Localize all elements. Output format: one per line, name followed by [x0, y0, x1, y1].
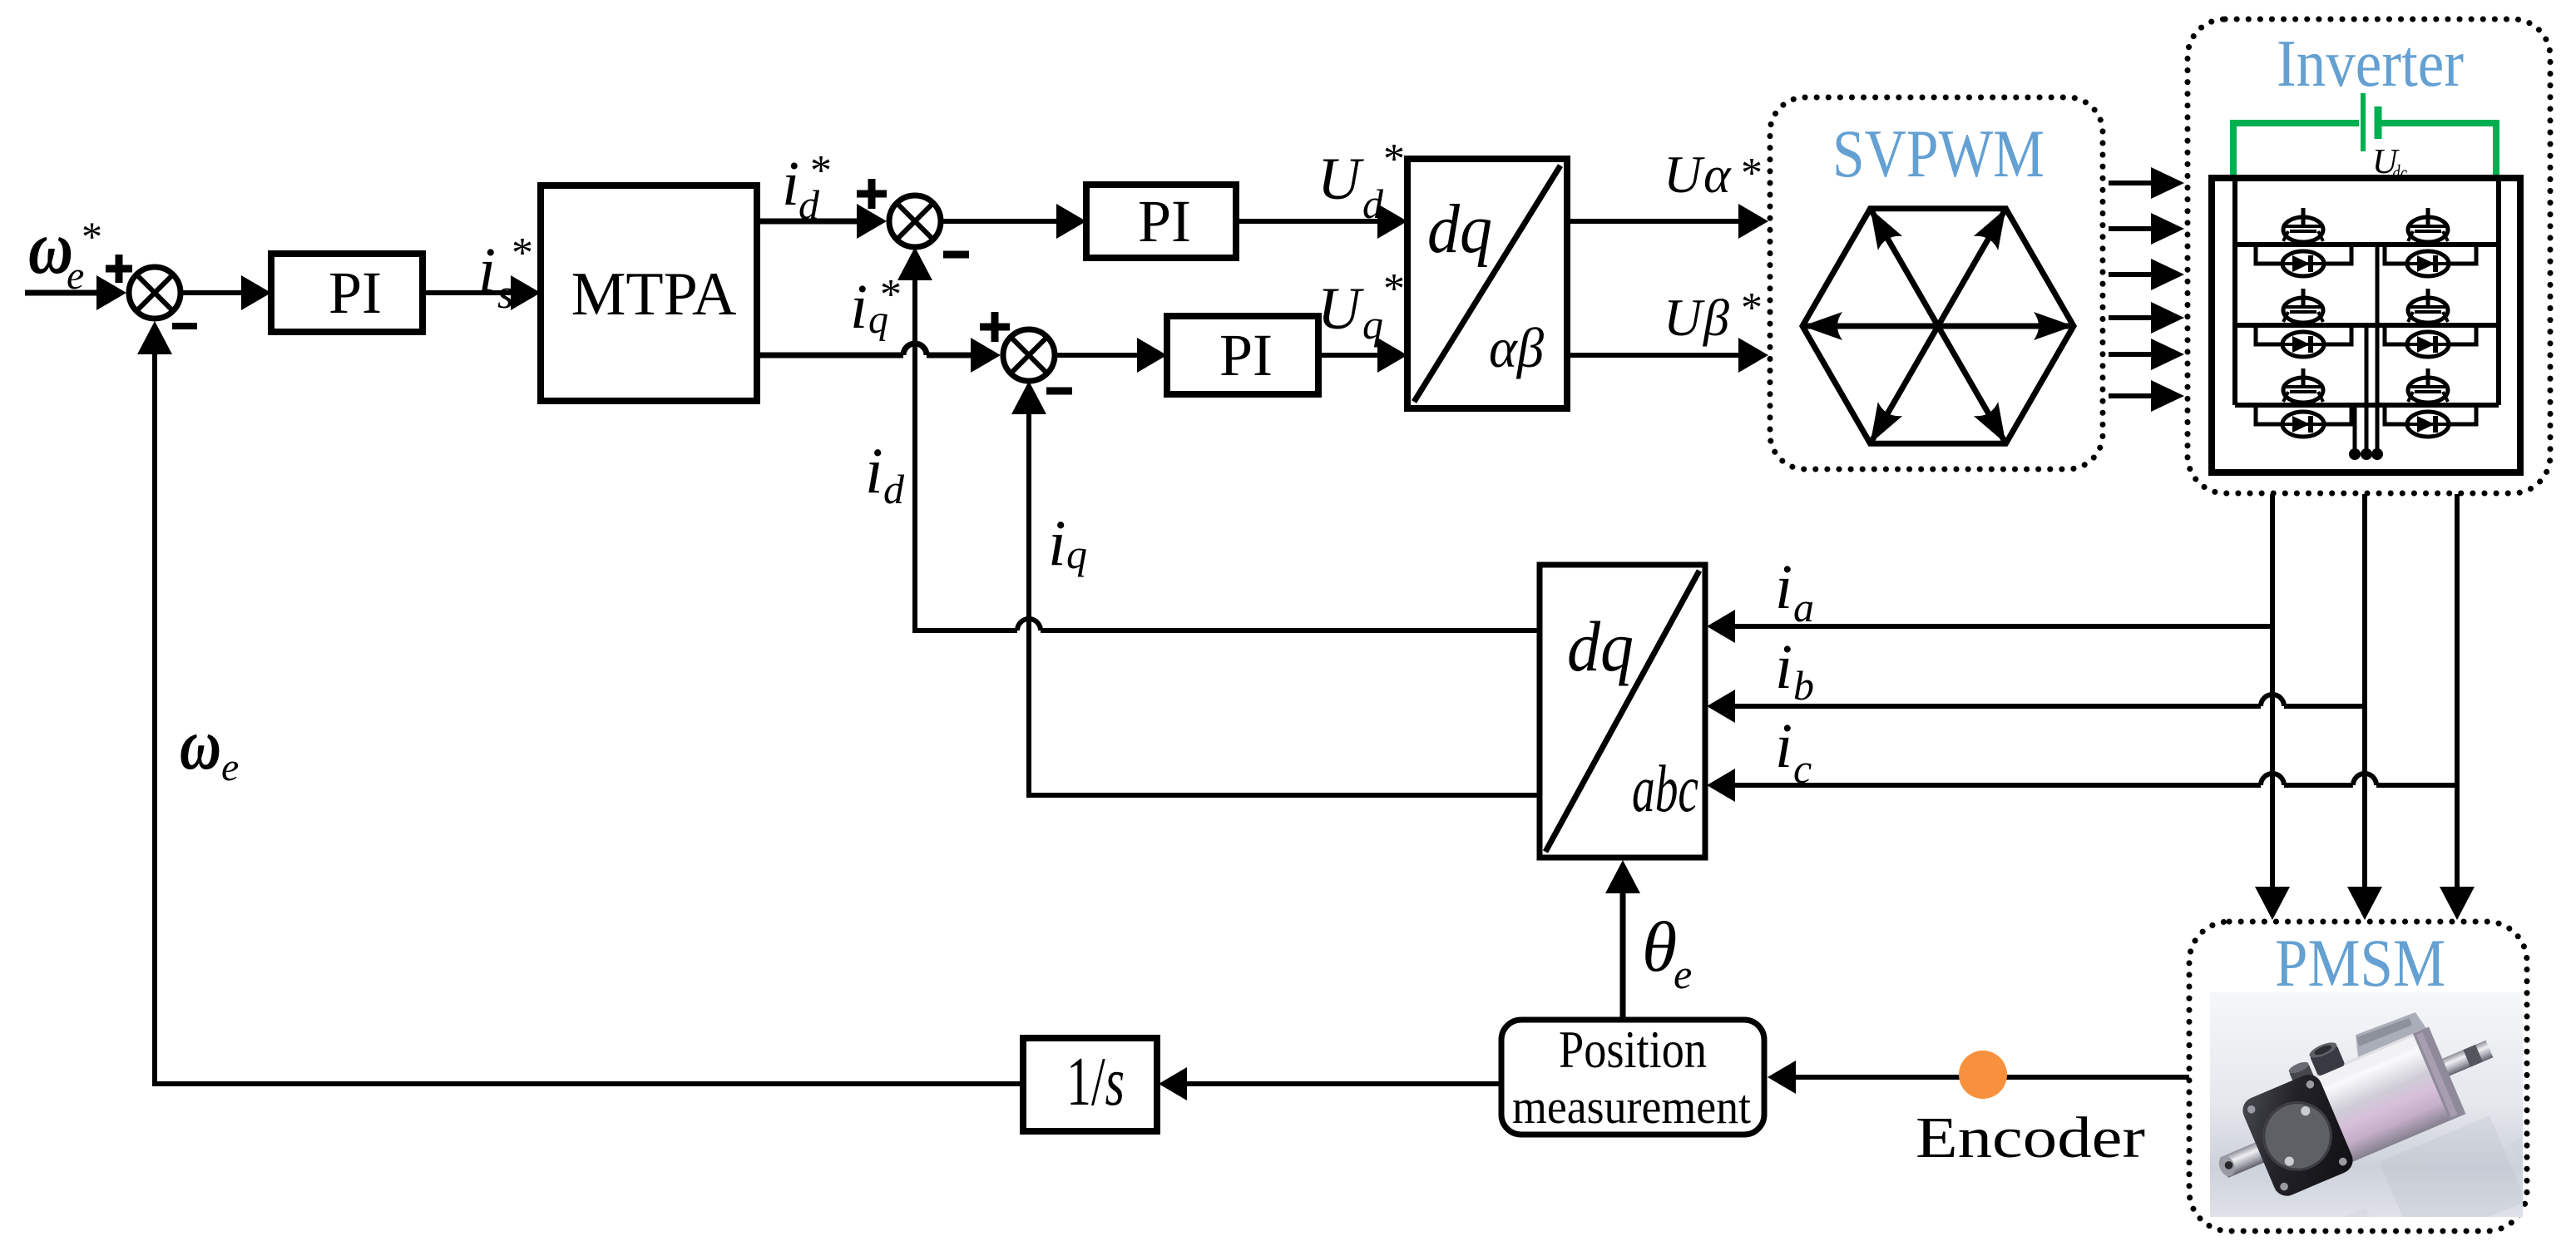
node omega_e feedback label	[180, 705, 239, 789]
encoder dot	[1959, 1051, 2007, 1099]
transistor Q4 (phase B mid)	[2408, 289, 2448, 323]
node U_beta* label	[1664, 284, 1763, 347]
wire J2 to PI2	[941, 204, 1086, 239]
svg-text:ω: ω	[180, 705, 221, 785]
diode D6 (phase B low)	[2385, 408, 2476, 437]
svg-text:U: U	[1318, 275, 1364, 342]
svg-text:dq: dq	[1427, 190, 1492, 268]
block MTPA	[541, 185, 757, 401]
diode D2 (phase B high)	[2385, 247, 2476, 276]
node U_d* label	[1318, 136, 1405, 227]
svg-text:i: i	[850, 272, 868, 342]
phase tap wires and dots	[2349, 245, 2383, 460]
wire encoder line PMSM to Position	[1768, 1061, 2189, 1094]
wire theta_e Position to dq/abc	[1605, 860, 1640, 1020]
node i_q feedback label	[1048, 507, 1087, 579]
transistor Q1 (phase A high)	[2283, 208, 2323, 242]
svg-text:Encoder: Encoder	[1916, 1106, 2145, 1170]
svg-text:d: d	[883, 466, 905, 512]
svg-text:a: a	[1793, 584, 1814, 630]
svg-text:q: q	[1066, 531, 1087, 577]
svg-text:i: i	[1775, 632, 1792, 702]
node i_q* label	[850, 271, 902, 342]
transistor Q5 (phase A low)	[2283, 368, 2323, 403]
wire ic from phase C to dq/abc with two hops	[1707, 769, 2457, 802]
node i_d* label	[782, 147, 832, 228]
svg-text:U: U	[1664, 288, 1705, 347]
svg-text:*: *	[82, 213, 102, 260]
svg-text:α: α	[1703, 147, 1732, 204]
svg-text:e: e	[1674, 951, 1692, 997]
svg-text:i: i	[782, 149, 799, 219]
svg-text:*: *	[512, 230, 533, 277]
block PMSM dotted container	[2189, 922, 2527, 1231]
svg-text:*: *	[1741, 284, 1763, 332]
svg-text:dc: dc	[2392, 161, 2407, 185]
svg-text:i: i	[478, 235, 496, 305]
block Inverter dotted container	[2188, 19, 2550, 493]
wire PI1 to MTPA with is* label	[423, 275, 541, 310]
svg-text:U: U	[1664, 145, 1705, 204]
svg-text:dq: dq	[1567, 606, 1634, 686]
svg-text:s: s	[497, 270, 513, 317]
svg-text:i: i	[1775, 711, 1792, 781]
wire ib from phase B to dq/abc with hop	[1707, 690, 2365, 723]
transistor Q6 (phase B low)	[2408, 368, 2448, 403]
diode D3 (phase A mid)	[2256, 328, 2351, 357]
node omega_e* input label	[28, 205, 102, 298]
summing junction J2	[857, 179, 969, 255]
svg-text:*: *	[1383, 136, 1405, 183]
node i_s* label	[478, 230, 533, 317]
svg-text:i: i	[1048, 507, 1066, 579]
svg-text:U: U	[1318, 146, 1364, 212]
transistor Q2 (phase B high)	[2408, 208, 2448, 242]
block dq/abc transform	[1540, 565, 1705, 858]
block PI2 (d-axis PI)	[1086, 185, 1236, 258]
diode D4 (phase B mid)	[2385, 328, 2476, 357]
svg-text:Inverter: Inverter	[2277, 27, 2464, 101]
svg-text:*: *	[1741, 150, 1763, 197]
svg-text:PI: PI	[1138, 188, 1191, 255]
wire PI2 to dq block with Ud* label	[1236, 204, 1407, 239]
battery Udc green circuit	[2233, 93, 2496, 180]
svg-text:1/s: 1/s	[1066, 1043, 1125, 1120]
block PI1 (speed PI)	[271, 254, 423, 332]
block 1/s integrator	[1023, 1038, 1157, 1131]
wire id feedback dq/abc to J2 with hop over iq line	[897, 247, 1540, 633]
wire input to summing junction 1	[25, 275, 126, 310]
node i_a label	[1775, 552, 1814, 630]
svg-text:Position: Position	[1559, 1020, 1707, 1079]
svg-text:i: i	[865, 434, 883, 507]
six gate wires SVPWM to Inverter	[2109, 167, 2184, 412]
svg-text:measurement: measurement	[1512, 1080, 1751, 1134]
svg-text:MTPA: MTPA	[571, 260, 737, 329]
svg-text:PI: PI	[1219, 322, 1273, 388]
inverter bridge outer box	[2212, 178, 2520, 472]
svg-text:SVPWM: SVPWM	[1832, 116, 2044, 191]
transistor Q3 (phase A mid)	[2283, 289, 2323, 323]
node i_b label	[1775, 632, 1814, 709]
wire MTPA iq* to J3 with hop over id line	[757, 338, 1001, 373]
svg-text:αβ: αβ	[1489, 316, 1544, 379]
three phase output wires to PMSM	[2255, 494, 2475, 920]
svg-text:e: e	[221, 745, 239, 789]
node U_dc label	[2372, 143, 2407, 185]
summing junction J1	[106, 255, 197, 326]
wire Position to 1/s	[1159, 1067, 1501, 1100]
diode D5 (phase A low)	[2256, 408, 2351, 437]
svg-text:PI: PI	[329, 260, 382, 326]
node i_c label	[1775, 711, 1812, 792]
wire MTPA id* to J2	[757, 204, 887, 239]
wire dq to SVPWM Ualpha*	[1567, 204, 1768, 239]
svg-text:c: c	[1793, 745, 1812, 792]
svg-text:d: d	[1362, 180, 1384, 227]
wire J1 to PI1	[180, 275, 271, 310]
block PI3 (q-axis PI)	[1167, 316, 1318, 394]
node U_q* label	[1318, 265, 1405, 348]
svg-text:b: b	[1793, 662, 1814, 709]
block dq/alphabeta transform	[1407, 159, 1567, 408]
svg-text:*: *	[810, 147, 832, 195]
wire omega_e feedback 1/s to J1	[137, 321, 1023, 1084]
node theta_e label	[1642, 907, 1692, 997]
wire iq feedback dq/abc to J3	[1011, 381, 1540, 798]
block SVPWM dotted container	[1770, 97, 2103, 469]
svg-text:PMSM: PMSM	[2275, 925, 2445, 1001]
svg-text:q: q	[1362, 301, 1383, 348]
svg-text:i: i	[1775, 552, 1792, 622]
summing junction J3	[980, 312, 1072, 391]
svg-text:abc: abc	[1632, 753, 1698, 826]
wire PI3 to dq block with Uq* label	[1318, 338, 1407, 373]
svg-text:θ: θ	[1642, 907, 1677, 987]
wire ia from phase A to dq/abc	[1707, 610, 2272, 643]
block Position measurement	[1501, 1020, 1764, 1135]
SVPWM hexagon	[1802, 209, 2074, 443]
diode D1 (phase A high)	[2256, 247, 2351, 276]
node i_d feedback label	[865, 434, 905, 512]
svg-text:β: β	[1703, 290, 1729, 347]
wire J3 to PI3	[1055, 338, 1167, 373]
node U_alpha* label	[1664, 145, 1763, 204]
svg-text:*: *	[880, 271, 902, 319]
svg-text:*: *	[1383, 265, 1405, 313]
wire dq to SVPWM Ubeta*	[1567, 338, 1768, 373]
